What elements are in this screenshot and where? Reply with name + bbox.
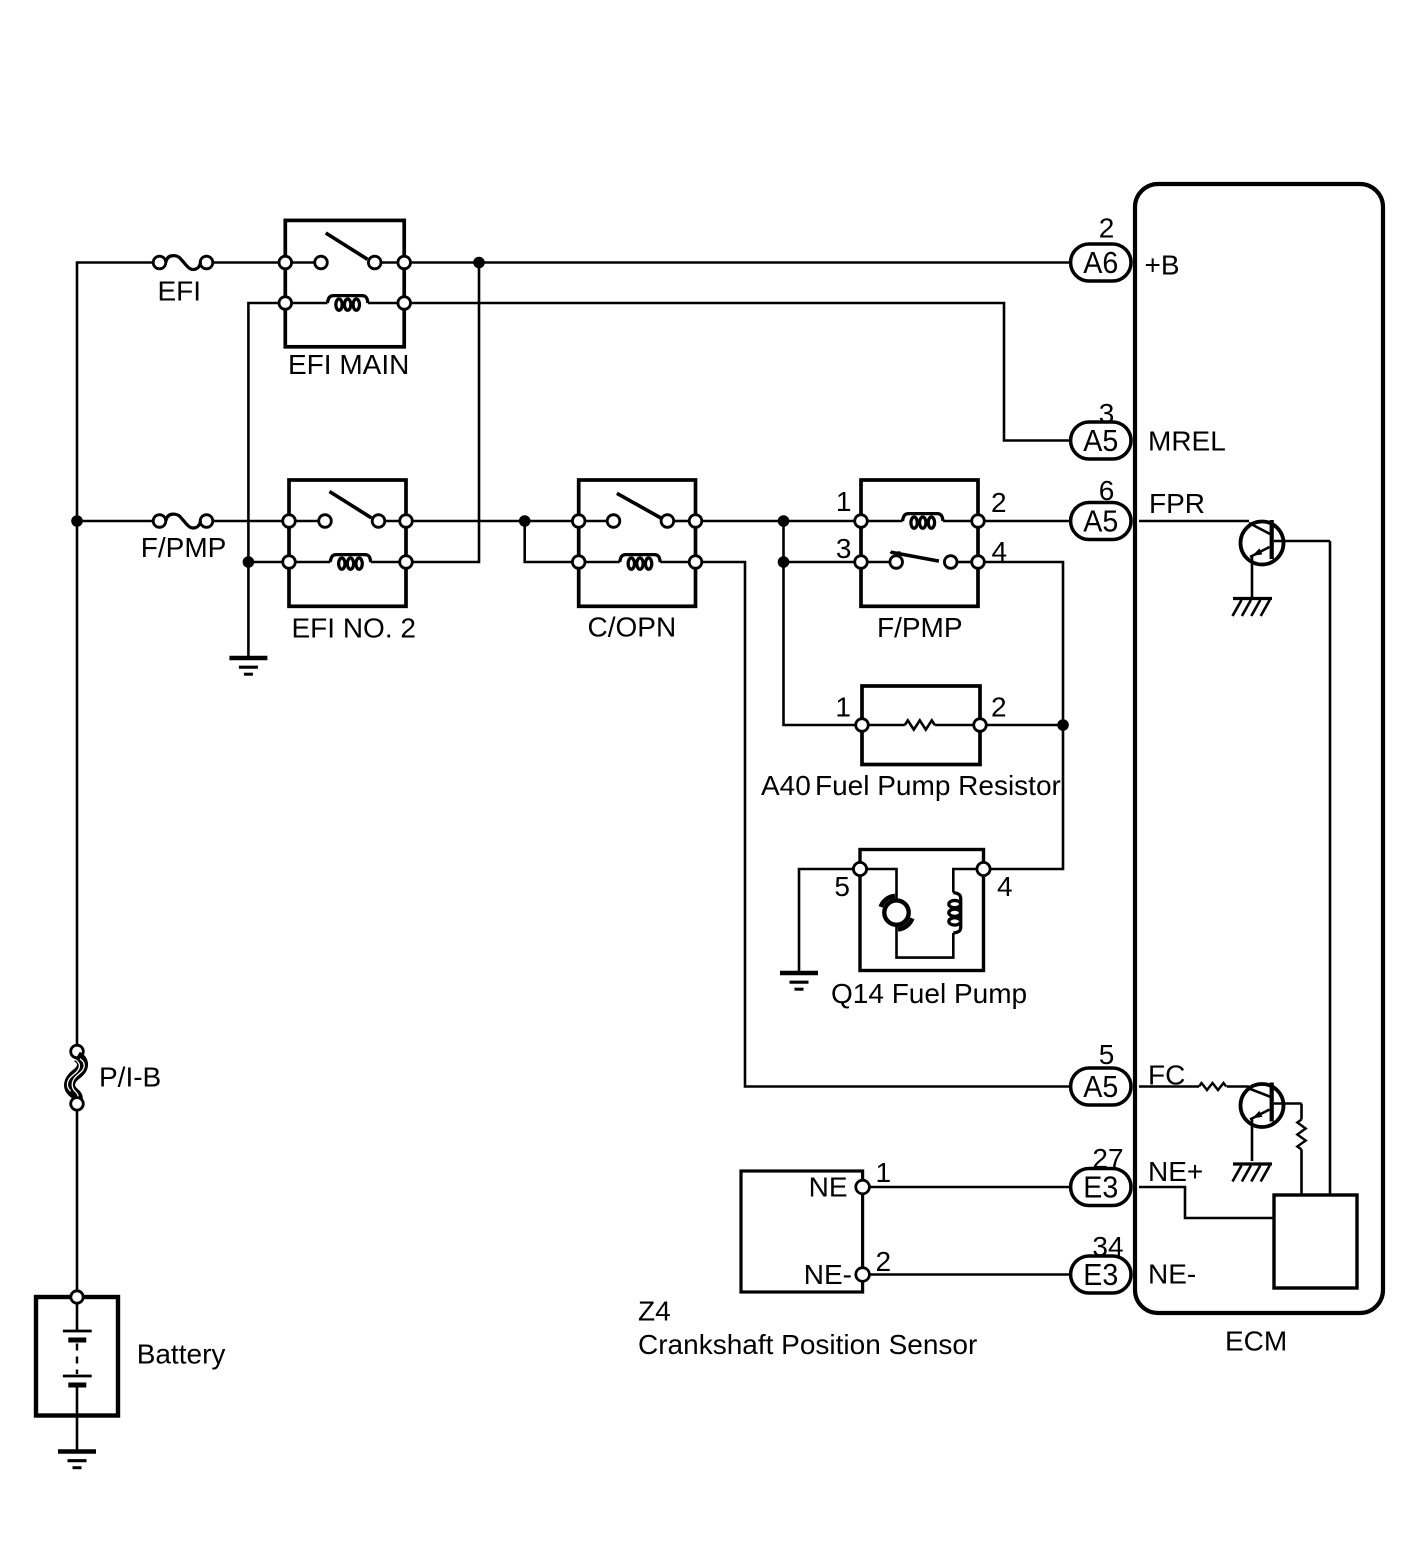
svg-text:3: 3: [1099, 398, 1115, 429]
svg-text:FPR: FPR: [1149, 488, 1205, 519]
transistor collector: [1274, 540, 1330, 543]
svg-text:Fuel Pump Resistor: Fuel Pump Resistor: [815, 770, 1061, 801]
relay F/PMP switch blade with arrow: [891, 552, 939, 561]
wire: battery positive vertical + top feed: [77, 263, 153, 1046]
junction node before C/OPN: [519, 515, 531, 527]
transistor FC driver with base resistor: [1139, 1085, 1199, 1088]
transistor body: [1241, 522, 1284, 565]
pump coil: [953, 893, 960, 934]
relay EFI NO.2 box: [289, 480, 406, 606]
svg-text:5: 5: [834, 871, 850, 902]
svg-text:Q14 Fuel Pump: Q14 Fuel Pump: [831, 978, 1027, 1009]
wire: NE+ into control box: [1139, 1187, 1274, 1218]
relay EFI MAIN switch blade: [326, 233, 368, 259]
junction node on +B wire: [473, 257, 485, 269]
svg-text:NE-: NE-: [804, 1259, 852, 1290]
battery positive pin: [71, 1291, 83, 1303]
svg-text:C/OPN: C/OPN: [588, 612, 677, 643]
transistor emitter: [1250, 547, 1270, 557]
svg-text:34: 34: [1092, 1231, 1123, 1262]
wire: F/PMP fuse to EFI NO.2 relay: [213, 520, 283, 523]
junction node at F/PMP switch row: [778, 556, 790, 568]
svg-text:MREL: MREL: [1148, 426, 1226, 457]
ground: FPR transistor emitter: [1233, 597, 1272, 600]
transistor emitter: [1250, 1110, 1270, 1120]
junction node feeding F/PMP relay rows: [778, 515, 790, 527]
svg-text:P/I-B: P/I-B: [99, 1062, 161, 1093]
svg-text:EFI: EFI: [158, 276, 202, 307]
relay C/OPN switch contacts: [585, 520, 607, 523]
wire: A40 pin2 to pump feed vertical: [986, 724, 1063, 727]
relay EFI MAIN coil: [292, 302, 328, 305]
svg-text:NE+: NE+: [1148, 1156, 1203, 1187]
svg-text:Battery: Battery: [137, 1339, 226, 1370]
relay F/PMP coil (pins 1-2): [867, 520, 902, 523]
svg-text:E3: E3: [1083, 1170, 1118, 1205]
fusible link P/I-B: [71, 1045, 84, 1058]
junction node at fuel pump resistor pin2: [1057, 719, 1069, 731]
resistor on FC collector: [1300, 1104, 1303, 1120]
svg-text:A5: A5: [1083, 504, 1118, 539]
wire: MREL from EFI MAIN coil to A5: [411, 303, 1070, 441]
Q14 fuel pump box: [860, 850, 984, 971]
svg-text:1: 1: [876, 1157, 892, 1188]
wire: battery feed to F/PMP fuse: [77, 520, 153, 523]
pump internal wiring: [866, 869, 896, 900]
svg-text:6: 6: [1099, 475, 1115, 506]
relay EFI NO.2 switch contacts: [295, 520, 318, 523]
ground: fuel pump: [780, 971, 818, 975]
fuse F/PMP: [153, 515, 166, 528]
svg-text:1: 1: [835, 692, 851, 723]
svg-text:+B: +B: [1145, 250, 1180, 281]
svg-text:2: 2: [991, 487, 1007, 518]
wire: +B junction down to EFI NO.2 coil: [412, 263, 479, 563]
battery box: [36, 1297, 118, 1416]
A40 resistor box: [862, 686, 980, 765]
relay EFI MAIN box: [285, 220, 404, 346]
relay C/OPN box: [579, 480, 696, 606]
relay EFI MAIN switch contacts: [292, 261, 315, 264]
svg-text:EFI NO. 2: EFI NO. 2: [292, 613, 416, 644]
svg-text:NE: NE: [809, 1172, 848, 1203]
wire: FPR collector down to control box: [1329, 541, 1332, 1195]
relay C/OPN switch blade: [617, 493, 661, 518]
svg-text:EFI MAIN: EFI MAIN: [288, 349, 409, 380]
relay F/PMP box: [861, 480, 978, 606]
wire: EFI NO.2 switch to C/OPN: [412, 520, 572, 523]
svg-text:F/PMP: F/PMP: [877, 612, 963, 643]
Z4 sensor box: [741, 1171, 863, 1292]
ECM box: [1135, 184, 1383, 1313]
relay F/PMP switch contacts (pins 3-4): [867, 561, 890, 564]
relay EFI NO.2 switch blade: [330, 492, 372, 518]
svg-text:A5: A5: [1083, 1069, 1118, 1104]
transistor base lead: [1249, 1089, 1271, 1098]
svg-text:2: 2: [1099, 213, 1115, 244]
junction node: EFI NO.2 coil to ground rail: [243, 556, 255, 568]
svg-text:2: 2: [991, 692, 1007, 723]
wire: EFI MAIN to +B (A6) with junction: [411, 261, 1070, 264]
svg-text:3: 3: [836, 533, 852, 564]
wire: link to battery: [76, 1110, 79, 1290]
wire: pump pin5 feed and ground: [799, 869, 854, 973]
svg-text:A40: A40: [761, 770, 811, 801]
transistor FPR driver: [1139, 520, 1249, 523]
transistor body: [1241, 1084, 1284, 1127]
svg-text:5: 5: [1099, 1039, 1115, 1070]
A40 resistor element: [868, 724, 905, 727]
svg-text:E3: E3: [1083, 1257, 1118, 1292]
relay EFI NO.2 coil: [295, 561, 330, 564]
wire: F/PMP pin4 down to fuel pump: [984, 562, 1063, 869]
connector A5 FC pin 5: [1071, 1068, 1131, 1105]
wire: NE to E3: [869, 1186, 1069, 1189]
connector E3 NE+ pin 27: [1071, 1169, 1131, 1206]
wire: junction down to C/OPN coil: [525, 521, 573, 562]
svg-text:Z4: Z4: [638, 1296, 671, 1327]
wire: F/PMP coil pin2 to FPR (A5): [984, 520, 1069, 523]
svg-text:F/PMP: F/PMP: [141, 532, 227, 563]
transistor base lead: [1249, 523, 1271, 535]
svg-text:4: 4: [997, 871, 1013, 902]
wire: feeder to F/PMP pin 3: [784, 561, 855, 564]
ground: battery: [58, 1449, 96, 1453]
battery cells: [76, 1304, 79, 1331]
fuse EFI: [153, 256, 166, 269]
connector A5 FPR pin 6: [1071, 503, 1131, 540]
wire: NE- to E3: [869, 1273, 1069, 1276]
transistor collector: [1274, 1102, 1302, 1105]
control box inside ECM: [1274, 1195, 1357, 1288]
wire: EFI MAIN coil to ground rail: [248, 303, 279, 658]
ground: FC transistor emitter: [1233, 1162, 1272, 1165]
connector A6 +B pin 2: [1071, 244, 1131, 281]
svg-text:27: 27: [1092, 1143, 1123, 1174]
svg-text:2: 2: [876, 1246, 892, 1277]
svg-text:1: 1: [836, 486, 852, 517]
svg-text:NE-: NE-: [1148, 1259, 1196, 1290]
wire: F/PMP feeder vertical down to resistor row: [784, 521, 856, 725]
svg-text:A6: A6: [1083, 245, 1118, 280]
svg-text:Crankshaft Position Sensor: Crankshaft Position Sensor: [638, 1329, 977, 1360]
connector A5 MREL pin 3: [1071, 422, 1131, 459]
wire: FC line from C/OPN coil to A5: [702, 562, 1069, 1087]
relay C/OPN coil: [585, 561, 620, 564]
pump motor: [884, 900, 908, 924]
wire: EFI NO.2 coil to ground rail: [248, 561, 282, 564]
wire: EFI fuse to EFI MAIN relay: [213, 261, 279, 264]
wire: C/OPN switch to F/PMP relay: [702, 520, 855, 523]
svg-text:ECM: ECM: [1225, 1326, 1287, 1357]
Z4 pins: [856, 1180, 870, 1194]
pump pins: [853, 862, 866, 875]
ground: relay coils: [229, 656, 267, 660]
junction node on battery feed (F/PMP fuse tap): [71, 515, 83, 527]
connector E3 NE- pin 34: [1071, 1256, 1131, 1293]
